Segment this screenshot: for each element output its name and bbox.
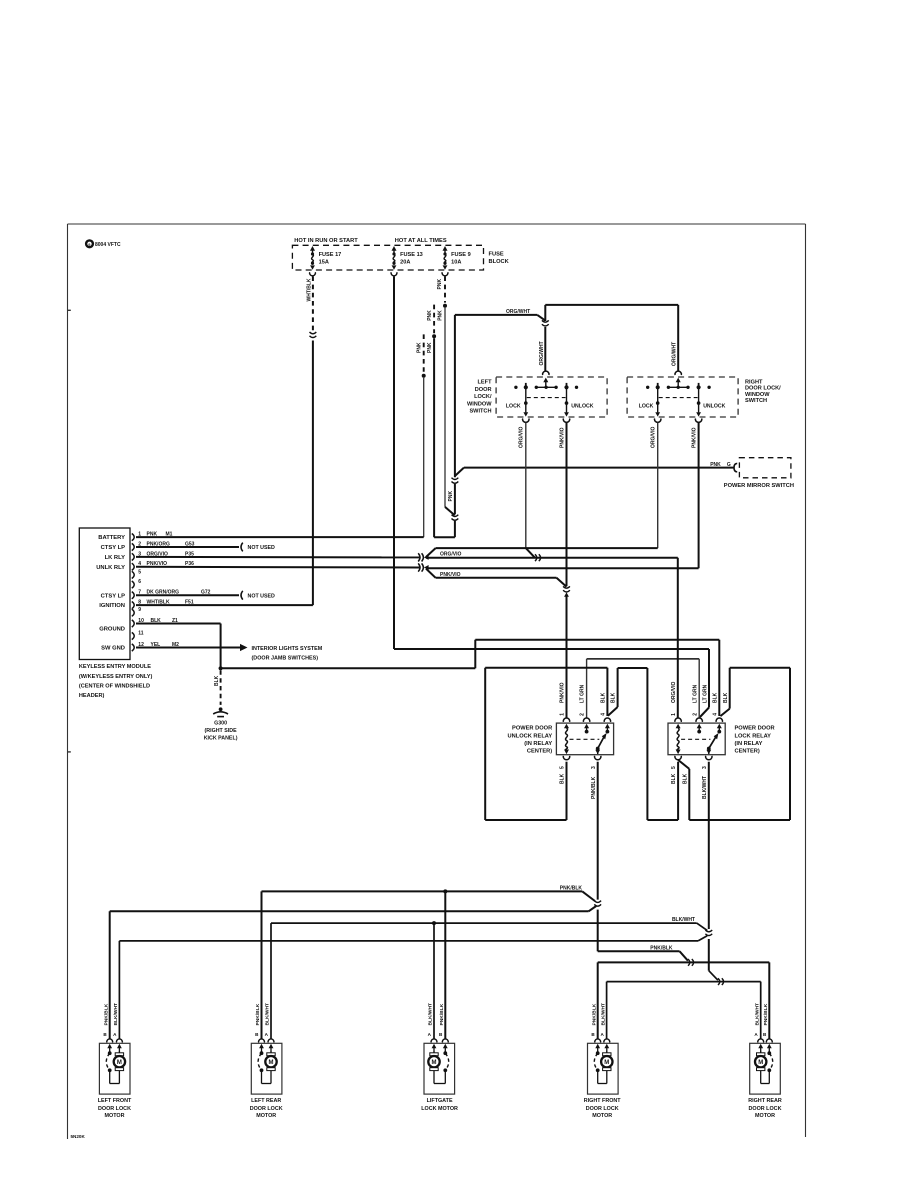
svg-text:WINDOW: WINDOW: [467, 401, 492, 407]
module pin 7 bracket: [132, 592, 134, 599]
wire liftgate verticals: [444, 891, 446, 1038]
svg-text:LEFT: LEFT: [478, 380, 493, 386]
svg-text:4: 4: [713, 713, 719, 716]
svg-text:5: 5: [671, 766, 677, 769]
svg-text:BLK: BLK: [713, 692, 719, 703]
svg-text:CENTER): CENTER): [527, 749, 552, 755]
right rear door lock motor: [750, 1043, 781, 1094]
module pin 2 bracket: [132, 543, 134, 550]
svg-text:BLK: BLK: [723, 692, 729, 703]
svg-text:BLK: BLK: [671, 773, 677, 784]
svg-text:BLK: BLK: [611, 692, 617, 703]
svg-text:(IN RELAY: (IN RELAY: [735, 741, 763, 747]
svg-text:ORG/VIO: ORG/VIO: [671, 681, 677, 703]
svg-text:20A: 20A: [400, 260, 410, 266]
svg-text:WHT/BLK: WHT/BLK: [306, 278, 312, 301]
svg-text:NOT USED: NOT USED: [248, 593, 276, 599]
svg-text:SW GND: SW GND: [101, 646, 125, 652]
module pin 11 bracket: [132, 632, 134, 639]
logo 8004 VFTC: [86, 240, 93, 247]
svg-text:M: M: [432, 1060, 437, 1066]
right front door lock motor: [588, 1043, 619, 1094]
svg-text:LK RLY: LK RLY: [105, 555, 126, 561]
svg-text:8: 8: [138, 600, 141, 606]
left door lock/window switch: [496, 377, 607, 417]
svg-text:3: 3: [591, 766, 597, 769]
svg-text:PNK/VIO: PNK/VIO: [691, 427, 697, 448]
wire BLK inner loop unlock pin4 to lock pin5: [608, 707, 618, 716]
svg-text:PNK/BLK: PNK/BLK: [650, 945, 673, 951]
module pin 9 bracket: [132, 609, 134, 616]
svg-text:FUSE 17: FUSE 17: [319, 252, 342, 258]
svg-text:5: 5: [138, 569, 141, 575]
wire PNK/BLK row to left front: [110, 910, 589, 912]
svg-text:6: 6: [138, 579, 141, 585]
svg-text:BLK/WHT: BLK/WHT: [265, 1003, 271, 1026]
svg-text:POWER DOOR: POWER DOOR: [735, 726, 775, 732]
svg-text:F51: F51: [185, 600, 194, 606]
svg-text:HEADER): HEADER): [79, 693, 105, 699]
svg-text:BLK/WHT: BLK/WHT: [754, 1003, 760, 1026]
svg-text:DOOR LOCK: DOOR LOCK: [98, 1106, 131, 1112]
wire LT GRN relay pin2 link: [587, 658, 700, 660]
svg-text:PNK/BLK: PNK/BLK: [255, 1003, 261, 1025]
svg-text:3: 3: [702, 766, 708, 769]
module pin 1 bracket: [132, 534, 134, 541]
svg-text:MOTOR: MOTOR: [105, 1113, 125, 1119]
svg-text:MOTOR: MOTOR: [755, 1113, 775, 1119]
power door lock relay: [668, 723, 725, 755]
fuse FUSE 13 20A: [392, 246, 397, 251]
svg-text:1: 1: [671, 713, 677, 716]
svg-text:PNK: PNK: [448, 491, 454, 502]
module pin 10 bracket: [132, 620, 134, 627]
svg-text:PNK/BLK: PNK/BLK: [439, 1003, 445, 1025]
wire PNK stub a / module pin1: [423, 334, 425, 373]
left rear door lock motor: [251, 1043, 282, 1094]
svg-text:PNK: PNK: [437, 279, 443, 290]
wire ORG/WHT to switches: [455, 314, 537, 316]
svg-text:15A: 15A: [319, 260, 329, 266]
svg-text:M: M: [604, 1060, 609, 1066]
wire PNK/VIO right switch unlock: [695, 419, 703, 422]
wire PNK/VIO module pin4 net: [136, 566, 419, 569]
svg-text:ORG/VIO: ORG/VIO: [440, 552, 462, 558]
wire PNK/VIO left switch unlock to unlock relay pin1: [563, 419, 571, 422]
svg-text:POWER MIRROR SWITCH: POWER MIRROR SWITCH: [724, 483, 794, 489]
svg-text:LT GRN: LT GRN: [580, 684, 586, 703]
svg-text:UNLK RLY: UNLK RLY: [96, 565, 125, 571]
wire PNK/BLK unlock relay pin3 down: [597, 762, 599, 900]
svg-text:PNK: PNK: [437, 310, 443, 321]
svg-text:BLOCK: BLOCK: [489, 259, 510, 265]
svg-text:ORG/WHT: ORG/WHT: [539, 341, 545, 365]
svg-text:HOT AT ALL TIMES: HOT AT ALL TIMES: [395, 238, 447, 244]
svg-text:ORG/WHT: ORG/WHT: [672, 342, 678, 366]
svg-text:FUSE: FUSE: [489, 251, 504, 257]
svg-text:PNK/BLK: PNK/BLK: [560, 885, 583, 891]
svg-text:11: 11: [138, 630, 144, 636]
svg-text:PNK/BLK: PNK/BLK: [591, 1003, 597, 1025]
svg-text:UNLOCK: UNLOCK: [571, 403, 593, 409]
svg-text:(IN RELAY: (IN RELAY: [524, 741, 552, 747]
svg-text:M1: M1: [166, 532, 173, 538]
fuse block: [292, 245, 483, 270]
wire BLK module pin10 ground net: [136, 623, 221, 625]
svg-text:G300: G300: [214, 721, 227, 727]
svg-text:PNK/BLK: PNK/BLK: [103, 1003, 109, 1025]
wire WHT/BLK fuse17 to module pin8: [312, 276, 314, 330]
svg-text:PNK: PNK: [427, 342, 433, 353]
svg-text:(W/KEYLESS ENTRY ONLY): (W/KEYLESS ENTRY ONLY): [79, 674, 153, 680]
svg-text:PNK/VIO: PNK/VIO: [440, 572, 461, 578]
svg-text:INTERIOR LIGHTS SYSTEM: INTERIOR LIGHTS SYSTEM: [252, 646, 323, 652]
svg-text:MOTOR: MOTOR: [592, 1113, 612, 1119]
svg-text:BLK/WHT: BLK/WHT: [702, 776, 708, 799]
ground G300: [219, 707, 223, 711]
svg-text:GROUND: GROUND: [99, 626, 125, 632]
keyless entry module box: [79, 528, 130, 660]
svg-text:2: 2: [692, 713, 698, 716]
svg-text:(DOOR JAMB SWITCHES): (DOOR JAMB SWITCHES): [252, 656, 319, 662]
svg-text:UNLOCK: UNLOCK: [703, 403, 725, 409]
svg-text:BLK/WHT: BLK/WHT: [113, 1003, 119, 1026]
liftgate lock motor: [424, 1043, 455, 1094]
svg-text:BATTERY: BATTERY: [98, 535, 125, 541]
right door lock/window switch: [627, 377, 738, 417]
wire PNK fuse9 splice stubs: [444, 276, 446, 302]
wire BLK/WHT row to left front: [119, 940, 698, 942]
svg-text:BLK/WHT: BLK/WHT: [428, 1003, 434, 1026]
svg-text:LIFTGATE: LIFTGATE: [427, 1098, 453, 1104]
svg-text:LOCK MOTOR: LOCK MOTOR: [421, 1106, 458, 1112]
svg-text:9: 9: [138, 607, 141, 613]
svg-text:10A: 10A: [451, 260, 461, 266]
svg-text:4: 4: [601, 713, 607, 716]
svg-text:G: G: [727, 462, 731, 468]
svg-text:PNK: PNK: [427, 310, 433, 321]
svg-text:SWITCH: SWITCH: [469, 409, 491, 415]
svg-text:UNLOCK RELAY: UNLOCK RELAY: [508, 733, 553, 739]
svg-text:LOCK RELAY: LOCK RELAY: [735, 733, 772, 739]
svg-text:(CENTER OF WINDSHIELD: (CENTER OF WINDSHIELD: [79, 683, 150, 689]
svg-text:PNK/VIO: PNK/VIO: [560, 682, 566, 703]
svg-text:PNK/BLK: PNK/BLK: [763, 1003, 769, 1025]
wire ORG/VIO module pin3 net: [136, 556, 419, 559]
wire BLK/WHT row to left rear + liftgate: [271, 922, 697, 924]
svg-text:M: M: [117, 1060, 122, 1066]
svg-text:2: 2: [580, 713, 586, 716]
svg-text:LOCK: LOCK: [639, 403, 654, 409]
svg-text:BLK: BLK: [214, 675, 220, 686]
svg-text:FUSE 13: FUSE 13: [400, 252, 423, 258]
svg-text:M: M: [758, 1060, 763, 1066]
svg-text:LEFT REAR: LEFT REAR: [251, 1098, 281, 1104]
wire PNK fuse13 to lock relay pin2: [393, 276, 395, 649]
svg-text:NOT USED: NOT USED: [248, 545, 276, 551]
svg-text:BLK: BLK: [560, 773, 566, 784]
svg-text:(RIGHT SIDE: (RIGHT SIDE: [205, 728, 238, 734]
svg-text:1: 1: [138, 532, 141, 538]
svg-text:1: 1: [560, 713, 566, 716]
power door unlock relay: [556, 723, 613, 755]
svg-text:MOTOR: MOTOR: [256, 1113, 276, 1119]
left front door lock motor: [99, 1043, 130, 1094]
module pin 8 bracket: [132, 602, 134, 609]
wire BLK to ground G300: [220, 670, 222, 705]
wire ORG/VIO left switch lock: [522, 419, 530, 422]
wire BLK/WHT to right motors: [709, 971, 718, 981]
svg-text:8004 VFTC: 8004 VFTC: [95, 242, 121, 248]
wire BLK unlock relay loop: [485, 667, 607, 669]
svg-text:SWITCH: SWITCH: [745, 398, 767, 404]
svg-text:5N20K: 5N20K: [71, 1134, 86, 1139]
svg-text:DOOR LOCK: DOOR LOCK: [586, 1106, 619, 1112]
svg-text:DOOR LOCK: DOOR LOCK: [250, 1106, 283, 1112]
module pin 5 bracket: [132, 571, 134, 578]
svg-text:KEYLESS ENTRY MODULE: KEYLESS ENTRY MODULE: [79, 664, 151, 670]
svg-text:LEFT FRONT: LEFT FRONT: [98, 1098, 132, 1104]
fuse FUSE 17 15A: [310, 246, 315, 251]
svg-text:DOOR: DOOR: [475, 387, 492, 393]
svg-text:ORG/VIO: ORG/VIO: [519, 426, 525, 448]
svg-text:PNK/VIO: PNK/VIO: [559, 427, 565, 448]
module pin 3 bracket: [132, 553, 134, 560]
module pin7 not used: [136, 594, 239, 596]
svg-text:KICK PANEL): KICK PANEL): [204, 736, 238, 742]
module pin 12 bracket: [132, 644, 134, 651]
wire BLK/WHT lock relay pin3 down: [708, 762, 710, 929]
power mirror switch: [734, 463, 737, 471]
wire BLK lock relay loop: [678, 760, 689, 769]
svg-text:CENTER): CENTER): [735, 749, 760, 755]
wire PNK to power mirror: [434, 536, 455, 538]
svg-text:ORG/WHT: ORG/WHT: [506, 309, 530, 315]
svg-text:DOOR LOCK: DOOR LOCK: [749, 1106, 782, 1112]
svg-text:BLK: BLK: [601, 692, 607, 703]
svg-text:HOT IN RUN OR START: HOT IN RUN OR START: [294, 238, 358, 244]
svg-text:IGNITION: IGNITION: [99, 603, 125, 609]
wire PNK stub b: [433, 305, 435, 334]
svg-text:RIGHT REAR: RIGHT REAR: [748, 1098, 782, 1104]
svg-text:WHT/BLK: WHT/BLK: [147, 600, 170, 606]
svg-text:FUSE 9: FUSE 9: [451, 252, 471, 258]
svg-text:BLK: BLK: [683, 773, 689, 784]
svg-text:LT GRN: LT GRN: [703, 684, 709, 703]
svg-text:BLK/WHT: BLK/WHT: [672, 917, 695, 923]
svg-text:PNK: PNK: [147, 532, 158, 538]
svg-text:PNK: PNK: [416, 342, 422, 353]
svg-text:9: 9: [88, 243, 90, 247]
wire PNK/BLK to right motors: [598, 950, 680, 952]
module pin12 YEL to interior lights: [136, 647, 241, 649]
svg-text:WINDOW: WINDOW: [745, 392, 770, 398]
svg-text:CTSY LP: CTSY LP: [101, 593, 126, 599]
svg-text:LOCK/: LOCK/: [474, 394, 492, 400]
border frame: [68, 223, 806, 225]
svg-text:BLK/WHT: BLK/WHT: [600, 1003, 606, 1026]
svg-text:CTSY LP: CTSY LP: [101, 545, 126, 551]
wire ORG/VIO right switch lock: [654, 419, 662, 422]
svg-text:RIGHT FRONT: RIGHT FRONT: [584, 1098, 622, 1104]
svg-text:M: M: [269, 1060, 274, 1066]
module pin 4 bracket: [132, 563, 134, 570]
svg-text:POWER DOOR: POWER DOOR: [512, 726, 552, 732]
svg-text:RIGHT: RIGHT: [745, 379, 763, 385]
svg-text:LT GRN: LT GRN: [692, 684, 698, 703]
wire PNK/BLK row to left rear + liftgate: [262, 890, 583, 892]
svg-text:PNK/BLK: PNK/BLK: [591, 776, 597, 799]
svg-text:DOOR LOCK/: DOOR LOCK/: [745, 386, 781, 392]
svg-text:5: 5: [560, 766, 566, 769]
fuse FUSE 9 10A: [443, 246, 448, 251]
module pin2 not used: [136, 546, 239, 548]
svg-text:LOCK: LOCK: [506, 403, 521, 409]
module pin 6 bracket: [132, 581, 134, 588]
svg-text:ORG/VIO: ORG/VIO: [651, 426, 657, 448]
svg-text:PNK: PNK: [710, 462, 721, 468]
